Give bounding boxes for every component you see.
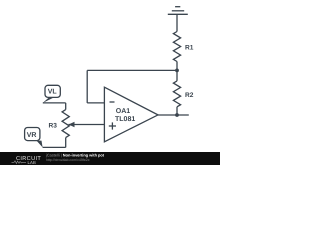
wire to inverting input (87, 102, 104, 104)
net flag VR (25, 128, 43, 148)
wire non-inverting input from wiper (69, 124, 105, 126)
CircuitLab logo (12, 156, 42, 165)
wire feedback left vertical (86, 70, 88, 103)
net flag VL (43, 85, 61, 103)
potentiometer R3 (62, 103, 69, 147)
svg-text:R2: R2 (185, 92, 194, 99)
node A junction dot (175, 69, 179, 73)
wire VL to R3 top (43, 102, 66, 104)
wire feedback top horizontal (87, 69, 177, 71)
svg-text:TL081: TL081 (115, 116, 135, 123)
resistor R2 (173, 70, 180, 115)
svg-text:R3: R3 (49, 122, 58, 129)
svg-text:http://circuitlab.com/c49fe2e: http://circuitlab.com/c49fe2e (46, 158, 90, 162)
resistor R1 (173, 32, 180, 62)
svg-text:VL: VL (48, 89, 58, 96)
ground (168, 7, 188, 15)
op-amp OA1 (104, 87, 158, 142)
node B junction dot (output) (175, 113, 179, 117)
svg-text:OA1: OA1 (116, 108, 131, 115)
wire ground to R1 (176, 14, 178, 31)
svg-text:VR: VR (27, 132, 37, 139)
footer bar (0, 152, 220, 165)
footer credit text (45, 153, 105, 162)
wire R1 to node A (176, 62, 178, 71)
wire VR to R3 bottom (43, 146, 66, 148)
svg-text:R1: R1 (185, 45, 194, 52)
potentiometer wiper arrow (69, 122, 75, 127)
svg-text:LAB: LAB (28, 160, 37, 165)
wire op-amp output (158, 114, 189, 116)
